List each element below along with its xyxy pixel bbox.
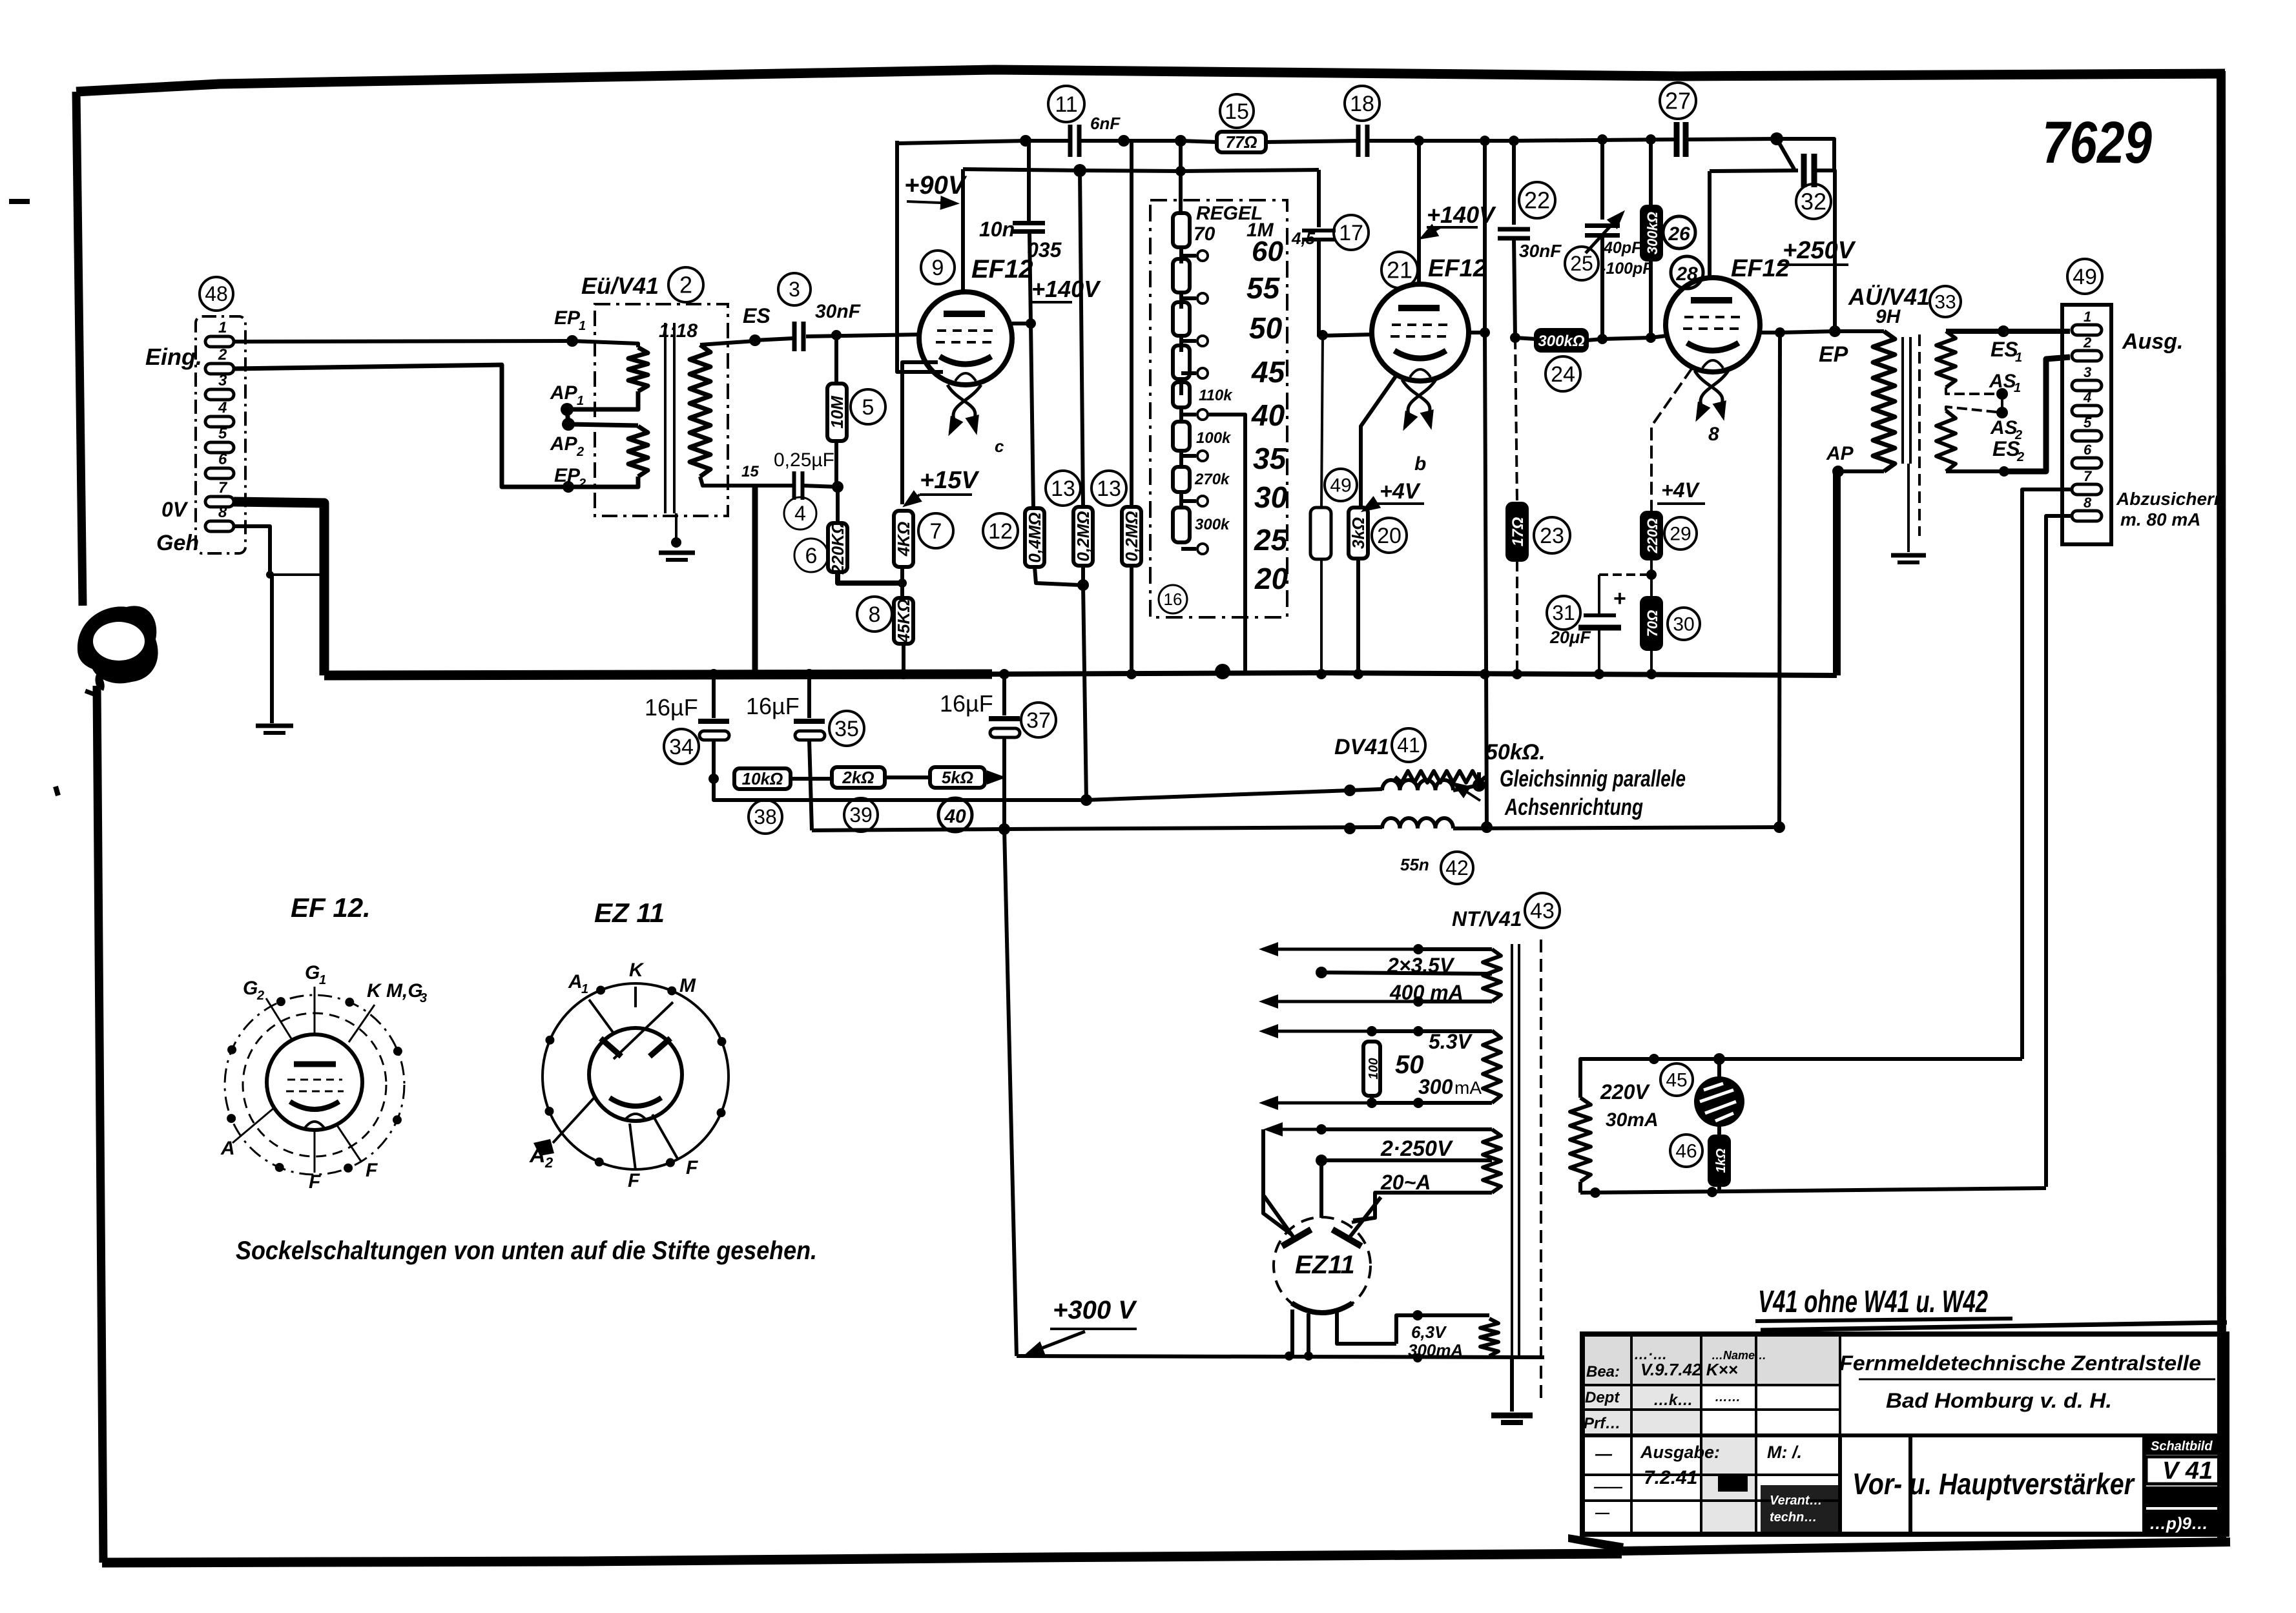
svg-text:55n: 55n: [1400, 855, 1429, 874]
svg-text:+4V: +4V: [1380, 479, 1422, 504]
svg-text:4,5: 4,5: [1291, 229, 1316, 248]
node EP: [1829, 325, 1841, 337]
capacitor C11: [1068, 125, 1073, 157]
tube V9 top anode lead: [961, 169, 965, 292]
svg-text:4: 4: [794, 502, 806, 525]
svg-text:A: A: [220, 1138, 235, 1159]
EZ11 cathode leads: [1290, 1310, 1294, 1356]
220V lamp loop: [1580, 1059, 2022, 1098]
svg-text:11: 11: [1055, 92, 1077, 117]
heater row 1: [1418, 947, 1492, 951]
svg-text:ES: ES: [1991, 338, 2018, 361]
capacitor C17 4,5nF: [1317, 170, 1321, 227]
svg-text:34: 34: [669, 735, 694, 759]
V28 screen to EP row: [1759, 331, 1835, 333]
node AP1: [561, 403, 574, 416]
svg-text:EF12: EF12: [971, 255, 1033, 283]
svg-text:EZ 11: EZ 11: [594, 898, 665, 928]
core centre tap to ground: [1907, 464, 1910, 552]
node EP1: [566, 335, 578, 347]
EZ11 centre feed: [1319, 1160, 1323, 1218]
svg-text:40pF: 40pF: [1603, 239, 1642, 257]
svg-text:Vor- u. Hauptverstärker: Vor- u. Hauptverstärker: [1852, 1467, 2135, 1501]
svg-text:24: 24: [1551, 362, 1575, 387]
resistor R38 10k: [734, 768, 791, 789]
svg-text:300kΩ: 300kΩ: [1644, 212, 1660, 254]
svg-text:39: 39: [849, 803, 873, 827]
node EP2: [563, 481, 574, 493]
winding 5.3V: [1483, 1031, 1501, 1103]
svg-text:20: 20: [1254, 562, 1288, 595]
svg-text:0,2MΩ: 0,2MΩ: [1122, 511, 1141, 561]
top bus Y1: [897, 141, 1069, 143]
svg-text:Gleichsinnig parallele: Gleichsinnig parallele: [1500, 765, 1686, 792]
core to ground: [675, 513, 677, 548]
heater leads V28: [1695, 371, 1722, 407]
DV41 feed row A: [714, 779, 1382, 800]
DV41 coil row B: [1382, 818, 1453, 828]
svg-text:28: 28: [1675, 263, 1698, 285]
svg-text:50kΩ.: 50kΩ.: [1485, 740, 1546, 765]
row B wire to V28 drop: [1453, 827, 1779, 828]
svg-text:6: 6: [2084, 442, 2092, 458]
resistor R7 4k: [894, 511, 913, 567]
winding 220V primary: [1570, 1098, 1591, 1182]
svg-text:30nF: 30nF: [1519, 241, 1562, 261]
wire pin7 0V thick: [234, 502, 324, 675]
margin tick marks: [9, 199, 30, 204]
resistor R13a 0,2M: [1080, 170, 1083, 507]
title block frame: [1582, 1334, 2227, 1534]
svg-text:17Ω: 17Ω: [1509, 517, 1527, 547]
wire secondary bottom to node 15: [700, 477, 755, 486]
svg-text:AS: AS: [1990, 417, 2018, 438]
svg-text:G: G: [243, 978, 258, 999]
circle 16: [1159, 585, 1187, 613]
svg-text:6: 6: [805, 544, 818, 568]
svg-text:23: 23: [1540, 524, 1564, 548]
EP2 wire: [568, 477, 638, 487]
svg-text:3: 3: [2084, 364, 2091, 380]
svg-text:60: 60: [1252, 236, 1283, 267]
resistor R24 300k: [1536, 330, 1587, 351]
resistor R30 70ohm: [1642, 598, 1661, 649]
svg-text:7629: 7629: [2042, 110, 2152, 176]
svg-text:AP: AP: [1826, 443, 1854, 464]
resistor R6 220k: [828, 523, 847, 572]
REGEL box: [1150, 200, 1287, 617]
svg-text:Eing.: Eing.: [145, 344, 202, 370]
V21 anode lead: [1417, 141, 1421, 285]
svg-text:110k: 110k: [1199, 387, 1233, 404]
svg-text:49: 49: [2073, 265, 2097, 289]
V41 cell: [2144, 1435, 2227, 1455]
AS taps: [1946, 387, 2002, 394]
svg-text:4KΩ: 4KΩ: [894, 522, 913, 557]
svg-text:EZ11: EZ11: [1295, 1251, 1355, 1279]
svg-text:18: 18: [1350, 92, 1374, 116]
svg-text:25: 25: [1570, 252, 1593, 275]
svg-text:1: 1: [2084, 309, 2091, 325]
svg-text:3: 3: [218, 372, 227, 389]
svg-text:2: 2: [2083, 334, 2092, 351]
svg-text:20~A: 20~A: [1380, 1171, 1431, 1194]
svg-text:ES: ES: [743, 304, 771, 327]
winding 2x3.5V: [1483, 949, 1501, 1002]
svg-text:G: G: [305, 962, 320, 983]
output connector 49: [2067, 259, 2102, 294]
svg-text:20μF: 20μF: [1549, 628, 1591, 647]
svg-text:-100pF: -100pF: [1600, 260, 1653, 278]
svg-text:7.2.41: 7.2.41: [1644, 1467, 1697, 1488]
svg-text:Schaltbild: Schaltbild: [2151, 1439, 2213, 1454]
svg-text:Sockelschaltungen von unten au: Sockelschaltungen von unten auf die Stif…: [236, 1237, 817, 1265]
resistor R5 10M: [834, 335, 838, 384]
svg-text:EF12: EF12: [1731, 255, 1790, 282]
winding 2x250V: [1483, 1129, 1501, 1193]
resistor R20 3k: [1349, 508, 1368, 559]
svg-text:0,2MΩ: 0,2MΩ: [1073, 511, 1093, 561]
resistor R40 5k: [930, 767, 985, 788]
svg-text:AP: AP: [550, 382, 578, 404]
HT row top: [1321, 1127, 1492, 1131]
svg-text:1kΩ: 1kΩ: [1714, 1148, 1728, 1173]
anode row tube V9: [1008, 322, 1031, 325]
svg-text:M: /.: M: /.: [1767, 1443, 1802, 1462]
secondary winding ES2: [1936, 411, 1956, 471]
svg-text:10M: 10M: [827, 395, 847, 429]
svg-text:c: c: [995, 437, 1004, 456]
wire pin1 to EP1: [234, 341, 572, 342]
svg-text:4: 4: [218, 399, 227, 416]
secondary winding: [690, 345, 710, 477]
resistor R12 0,4M: [1025, 508, 1044, 567]
svg-text:DV41: DV41: [1334, 735, 1389, 759]
heater leads tube V9: [947, 385, 975, 421]
svg-text:42: 42: [1445, 856, 1469, 879]
svg-text:mA: mA: [1454, 1078, 1482, 1098]
svg-text:10kΩ: 10kΩ: [742, 769, 783, 788]
svg-text:+90V: +90V: [904, 171, 967, 200]
svg-text:0,4MΩ: 0,4MΩ: [1025, 512, 1044, 562]
hole punch blob: [78, 606, 158, 683]
HT row bottom: [1353, 1193, 1492, 1220]
tube V21 EF12: [1372, 284, 1469, 381]
svg-text:V41 ohne W41 u. W42: V41 ohne W41 u. W42: [1758, 1285, 1988, 1319]
svg-text:21: 21: [1387, 257, 1412, 283]
capacitor C31 20uF: [1599, 573, 1651, 576]
svg-text:300k: 300k: [1195, 516, 1230, 533]
svg-text:7: 7: [218, 479, 228, 497]
ground under AUe: [1891, 553, 1926, 558]
svg-text:8: 8: [869, 602, 881, 627]
svg-text:5: 5: [2084, 415, 2092, 431]
wire V21 screen down to DV41: [1485, 333, 1487, 827]
svg-text:40: 40: [944, 806, 966, 827]
heater row 2: [1418, 1000, 1492, 1003]
long wire to PSU bottom: [1004, 829, 1017, 1356]
rectifier tube EZ11: [1274, 1217, 1370, 1314]
svg-text:30mA: 30mA: [1606, 1109, 1659, 1131]
svg-text:Achsenrichtung: Achsenrichtung: [1504, 794, 1643, 820]
svg-text:0V: 0V: [161, 498, 189, 521]
tube V9 EF12: [919, 292, 1012, 385]
svg-text:V 41: V 41: [2162, 1457, 2213, 1485]
wire pin8 Geh: [234, 526, 270, 575]
svg-text:20: 20: [1377, 524, 1401, 548]
ES1 wire to pin1: [1946, 329, 2070, 334]
svg-text:16µF: 16µF: [645, 694, 698, 721]
svg-text:b: b: [1414, 453, 1426, 475]
svg-text:5: 5: [218, 425, 227, 442]
ground bus: [324, 674, 992, 675]
node ES: [749, 334, 761, 346]
svg-text:Verant…: Verant…: [1770, 1494, 1823, 1508]
REGEL output bracket: [1208, 415, 1245, 617]
svg-text:37: 37: [1026, 708, 1051, 733]
svg-text:F: F: [366, 1160, 378, 1181]
svg-text:35: 35: [834, 717, 859, 741]
wire pin2 to EP2: [234, 365, 568, 487]
svg-text:Geh: Geh: [156, 531, 199, 555]
svg-text:4: 4: [2083, 389, 2091, 406]
svg-text:3: 3: [420, 991, 427, 1005]
secondary winding ES1: [1936, 331, 1956, 387]
svg-text:……: ……: [1715, 1390, 1741, 1404]
svg-text:——: ——: [1593, 1479, 1623, 1495]
svg-text:70: 70: [1194, 223, 1215, 245]
EZ11 anode arms: [1264, 1196, 1296, 1241]
AP2 tap wire: [568, 424, 638, 426]
core lines: [664, 323, 667, 513]
svg-text:9H: 9H: [1876, 306, 1901, 327]
svg-text:49: 49: [1330, 475, 1351, 497]
svg-text:m. 80 mA: m. 80 mA: [2120, 509, 2201, 529]
ground under NT: [1510, 1357, 1514, 1412]
svg-text:12: 12: [988, 519, 1013, 544]
heater row 4: [1372, 1101, 1492, 1105]
variable capacitor C25: [1600, 139, 1604, 220]
svg-text:7: 7: [930, 519, 942, 544]
svg-text:1:18: 1:18: [659, 320, 698, 342]
resistor R44 100ohm: [1363, 1042, 1380, 1096]
svg-text:100: 100: [1367, 1058, 1381, 1079]
svg-text:AS: AS: [1989, 371, 2016, 392]
DV41 feed row B: [812, 827, 1382, 830]
winding 6.3V box: [1396, 1315, 1489, 1344]
svg-text:K M,G: K M,G: [367, 980, 423, 1002]
svg-text:48: 48: [205, 282, 228, 305]
svg-text:77Ω: 77Ω: [1225, 132, 1257, 152]
svg-text:16µF: 16µF: [940, 690, 993, 717]
svg-text:Ausg.: Ausg.: [2122, 329, 2183, 354]
AP thick feed from bus: [1833, 473, 1841, 675]
link to 0V bus: [270, 573, 324, 576]
resistor R26 300k: [1649, 139, 1653, 207]
svg-text:270k: 270k: [1194, 471, 1230, 488]
svg-text:EP: EP: [1819, 342, 1848, 367]
svg-text:Eü/V41: Eü/V41: [581, 272, 659, 299]
primary winding: [1835, 329, 1884, 333]
primary winding lower: [628, 426, 648, 477]
svg-text:13: 13: [1051, 477, 1075, 501]
sheet border: [76, 70, 2225, 92]
ES2 wire to pin2: [1946, 469, 2004, 473]
svg-text:+4V: +4V: [1661, 478, 1700, 502]
pin7 wire to 220V loop: [2022, 489, 2072, 1059]
svg-text:35: 35: [1253, 442, 1287, 475]
svg-text:AP: AP: [550, 433, 578, 455]
svg-text:+: +: [1613, 586, 1626, 611]
svg-text:22: 22: [1524, 187, 1550, 214]
svg-text:31: 31: [1552, 601, 1575, 624]
svg-text:techn…: techn…: [1770, 1510, 1817, 1525]
REGEL taps: [1181, 254, 1196, 258]
svg-text:45KΩ: 45KΩ: [894, 599, 913, 644]
resistor R15: [1217, 132, 1266, 152]
svg-text:6,3V: 6,3V: [1411, 1322, 1447, 1342]
svg-text:2kΩ: 2kΩ: [842, 768, 874, 787]
svg-text:1: 1: [579, 319, 586, 333]
grid row V21-V28: [1515, 338, 1536, 339]
tube V28 EF12: [1666, 278, 1760, 372]
svg-text:2·250V: 2·250V: [1380, 1136, 1454, 1161]
svg-text:29: 29: [1670, 524, 1691, 545]
wire bus left drop: [897, 141, 943, 372]
svg-text:15: 15: [741, 463, 759, 480]
svg-text:70Ω: 70Ω: [1644, 610, 1660, 637]
svg-text:0,25µF: 0,25µF: [774, 449, 834, 471]
svg-text:15: 15: [1225, 99, 1249, 124]
svg-text:33: 33: [1934, 292, 1956, 313]
resistor R29 220ohm: [1642, 513, 1661, 559]
svg-text:220KΩ: 220KΩ: [828, 521, 847, 575]
REGEL divider chain feed: [1179, 141, 1183, 213]
svg-text:EF12: EF12: [1428, 255, 1487, 282]
svg-text:50: 50: [1249, 311, 1283, 345]
primary winding upper: [572, 341, 638, 347]
svg-text:EP: EP: [554, 465, 581, 486]
AP1-AP2 link: [567, 409, 568, 424]
node AP2: [562, 418, 575, 431]
svg-text:+250V: +250V: [1783, 237, 1856, 264]
capacitor C18: [1356, 125, 1361, 157]
svg-text:1: 1: [319, 973, 326, 987]
svg-text:NT/V41: NT/V41: [1452, 907, 1522, 930]
capacitor C10 10nF / 035: [1027, 141, 1031, 222]
connector 48 (input): [200, 277, 233, 311]
svg-text:K: K: [629, 960, 645, 981]
svg-text:1: 1: [581, 982, 588, 996]
svg-text:A: A: [568, 971, 583, 992]
svg-text:45: 45: [1666, 1070, 1687, 1091]
svg-text:2: 2: [218, 346, 227, 364]
capacitor C27: [1674, 122, 1680, 157]
wire V28 screen down to DV41 row2: [1779, 333, 1780, 827]
svg-text:2: 2: [576, 445, 584, 459]
svg-text:2: 2: [256, 989, 264, 1003]
REGEL bottom edge exit to bus: [1243, 617, 1247, 672]
V28 cathode lead: [1651, 368, 1692, 513]
heater row 3: [1372, 1029, 1492, 1033]
svg-text:43: 43: [1530, 899, 1555, 923]
V28 anode lead: [1708, 171, 1712, 279]
ground under connector: [270, 575, 274, 723]
svg-text:6: 6: [218, 451, 227, 468]
svg-text:—: —: [1595, 1505, 1610, 1521]
svg-text:1: 1: [218, 319, 227, 336]
HT centre tap: [1321, 1158, 1492, 1162]
resistor R13b 0,2M: [1130, 141, 1133, 507]
svg-text:5.3V: 5.3V: [1429, 1030, 1473, 1053]
svg-text:41: 41: [1397, 734, 1420, 757]
bus Y2: [963, 169, 1319, 171]
svg-text:8: 8: [218, 504, 227, 521]
svg-text:+15V: +15V: [920, 467, 979, 494]
ground under transformer: [659, 551, 695, 555]
svg-text:F: F: [309, 1171, 321, 1193]
resistor R39 2k: [832, 767, 885, 788]
svg-text:40: 40: [1251, 398, 1285, 432]
svg-text:035: 035: [1027, 238, 1062, 262]
svg-text:25: 25: [1254, 523, 1288, 557]
heater leads tube V21: [1402, 380, 1430, 416]
heater row 1 tap: [1321, 972, 1492, 974]
svg-text:30nF: 30nF: [815, 301, 861, 322]
svg-text:220V: 220V: [1600, 1080, 1650, 1104]
+300V bottom wire: [1017, 1356, 1544, 1357]
svg-text:—: —: [1595, 1444, 1613, 1463]
transformer Eü/V41 box: [595, 304, 728, 516]
svg-text:1: 1: [577, 394, 584, 408]
svg-text:220Ω: 220Ω: [1644, 519, 1660, 554]
svg-text:100k: 100k: [1196, 429, 1232, 447]
svg-text:1: 1: [2014, 381, 2021, 395]
capacitor C22 30nF: [1512, 141, 1516, 225]
svg-text:2: 2: [679, 272, 692, 298]
svg-text:+300 V: +300 V: [1053, 1296, 1137, 1324]
svg-text:16µF: 16µF: [746, 693, 800, 719]
svg-text:2: 2: [544, 1155, 553, 1171]
wire to DV41 row: [1083, 585, 1086, 800]
DV41 coil row A: [1382, 780, 1453, 790]
svg-text:1: 1: [2015, 351, 2022, 365]
svg-text:M: M: [679, 975, 696, 996]
svg-text:ES: ES: [1992, 437, 2020, 460]
resistor R8 45k: [900, 567, 904, 598]
svg-text:F: F: [686, 1157, 698, 1178]
svg-text:A: A: [529, 1143, 546, 1167]
capacitor C3 30nF: [755, 338, 792, 340]
title block bottom thick edge: [1622, 1542, 2230, 1551]
svg-text:5kΩ: 5kΩ: [942, 768, 973, 787]
AP1 tap wire: [567, 391, 638, 409]
svg-text:Abzusichern: Abzusichern: [2116, 489, 2225, 509]
svg-text:27: 27: [1665, 88, 1691, 114]
lamp 45: [1717, 1059, 1721, 1078]
svg-text:38: 38: [754, 805, 777, 828]
svg-text:3: 3: [789, 278, 800, 301]
svg-text:300kΩ: 300kΩ: [1538, 333, 1584, 350]
svg-text:10n: 10n: [979, 218, 1015, 241]
svg-text:3kΩ: 3kΩ: [1349, 517, 1368, 549]
svg-text:Fernmeldetechnische Zentralst: Fernmeldetechnische Zentralstelle: [1839, 1351, 2201, 1375]
svg-text:F: F: [628, 1170, 640, 1191]
EZ11 cathode arc: [1292, 1303, 1352, 1313]
HT left drop to EZ11 anode: [1263, 1129, 1292, 1235]
svg-text:55: 55: [1246, 271, 1281, 305]
svg-text:Bad Homburg v. d. H.: Bad Homburg v. d. H.: [1886, 1389, 2112, 1412]
